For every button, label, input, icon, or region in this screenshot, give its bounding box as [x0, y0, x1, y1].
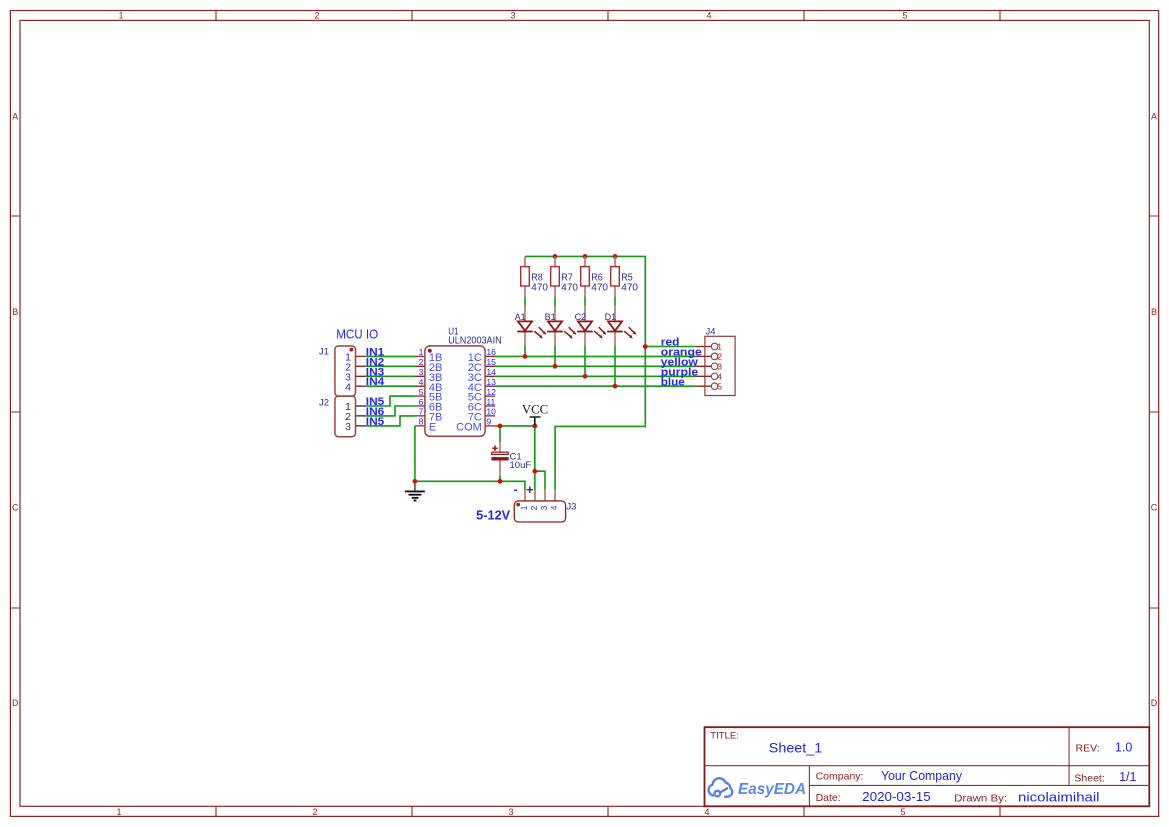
svg-text:4: 4: [345, 381, 351, 393]
title block text: [710, 731, 1136, 805]
J3 pin numbers (rotated): [519, 505, 559, 510]
svg-text:1: 1: [118, 10, 123, 20]
svg-text:2: 2: [312, 807, 317, 817]
svg-text:470: 470: [531, 283, 548, 294]
J4 pin numbers: [717, 342, 722, 392]
svg-text:3: 3: [508, 807, 513, 817]
wire junction dots: [413, 254, 648, 484]
resistor R6: [581, 267, 590, 286]
svg-text:3: 3: [539, 505, 549, 510]
svg-text:B: B: [12, 307, 18, 317]
svg-text:470: 470: [591, 283, 608, 294]
J2 pin stubs (black): [356, 406, 366, 426]
svg-text:B1: B1: [545, 312, 556, 322]
wire: capacitor C1 bottom to ground rail: [499, 476, 501, 482]
J4 pin pads: [711, 343, 718, 389]
svg-text:4: 4: [549, 505, 559, 510]
wire: J1 pin1 to IC 1B: [366, 355, 416, 357]
wire: R7 bottom to LED anode: [554, 296, 556, 306]
svg-text:10: 10: [486, 407, 496, 417]
LED A1: [517, 321, 543, 336]
svg-text:4: 4: [419, 377, 424, 387]
ground symbol: [414, 483, 416, 491]
svg-text:4: 4: [717, 372, 722, 382]
svg-text:Drawn By:: Drawn By:: [954, 793, 1007, 805]
svg-text:2: 2: [717, 352, 722, 362]
svg-text:470: 470: [561, 283, 578, 294]
svg-text:nicolaimihail: nicolaimihail: [1018, 791, 1100, 805]
connector J2 body: [335, 396, 356, 437]
wire: J1 pin3 to IC 3B: [366, 375, 416, 377]
U1 pin numbers: [419, 347, 497, 427]
svg-text:1: 1: [717, 342, 722, 352]
svg-text:IN5: IN5: [366, 416, 385, 428]
svg-text:EasyEDA: EasyEDA: [738, 781, 806, 798]
svg-text:8: 8: [419, 417, 424, 427]
svg-text:1: 1: [519, 505, 529, 510]
resistor R5: [611, 267, 620, 286]
svg-text:1: 1: [419, 347, 424, 357]
J1 / IC / J4 pin stubs: [356, 347, 712, 426]
wire: capacitor C1 top to COM row: [499, 426, 501, 442]
U1 pin names: [429, 352, 482, 434]
svg-text:14: 14: [486, 367, 496, 377]
svg-text:VCC: VCC: [522, 402, 548, 416]
svg-text:4: 4: [704, 807, 709, 817]
J1 pin numbers: [345, 352, 351, 394]
svg-text:C: C: [12, 503, 19, 513]
svg-text:J2: J2: [319, 398, 329, 409]
wire: J2 pin3 (IN5) jog to IC 7B: [366, 416, 416, 426]
resistor R7: [551, 267, 560, 286]
wire: J1 pin2 to IC 2B: [366, 365, 416, 367]
svg-text:16: 16: [486, 347, 496, 357]
svg-text:Date:: Date:: [816, 792, 841, 804]
svg-text:5-12V: 5-12V: [476, 509, 511, 523]
svg-text:J1: J1: [319, 347, 329, 358]
wire: LED cathode to output row: [584, 346, 586, 377]
wire: IC COM to VCC node: [495, 425, 535, 427]
svg-text:6: 6: [419, 397, 424, 407]
svg-text:Company:: Company:: [816, 771, 864, 783]
connector J3 body: [514, 501, 565, 522]
svg-text:10uF: 10uF: [510, 460, 532, 471]
svg-text:5: 5: [900, 807, 905, 817]
svg-text:5: 5: [419, 387, 424, 397]
svg-text:ULN2003AIN: ULN2003AIN: [448, 336, 502, 347]
svg-text:REV:: REV:: [1076, 743, 1100, 755]
svg-text:C2: C2: [575, 312, 587, 322]
wire: yellow net row (IC 2C to J4 pin3): [495, 365, 695, 367]
svg-text:E: E: [429, 422, 436, 434]
J1 pin1 marker: [350, 348, 354, 352]
J3 pin1 marker: [516, 503, 520, 507]
wire: red net row to J4 pin1: [645, 346, 695, 348]
wire: R6 bottom to LED anode: [584, 296, 586, 306]
wire: R8 bottom to LED anode: [524, 296, 526, 306]
LED D1: [607, 321, 633, 336]
svg-text:1/1: 1/1: [1119, 770, 1136, 784]
wire: blue net row (IC 4C to J4 pin5): [495, 385, 695, 387]
svg-text:D1: D1: [605, 312, 617, 322]
wire: J2 pin1 (IN5) jog to IC 5B: [366, 396, 416, 406]
svg-text:4: 4: [706, 10, 711, 20]
svg-text:Your Company: Your Company: [881, 769, 963, 783]
svg-text:11: 11: [486, 397, 495, 407]
EasyEDA logo: [709, 778, 733, 797]
svg-text:1: 1: [116, 807, 121, 817]
LED C2: [577, 321, 603, 336]
wire: LED cathode to output row: [554, 346, 556, 367]
svg-text:Sheet_1: Sheet_1: [769, 739, 823, 755]
resistor and LED pins: [500, 256, 615, 501]
svg-text:IN4: IN4: [366, 376, 385, 388]
svg-text:5: 5: [902, 10, 907, 20]
svg-text:J4: J4: [706, 327, 716, 338]
svg-text:5: 5: [717, 381, 722, 391]
VCC power symbol: [530, 417, 541, 425]
svg-text:15: 15: [486, 357, 496, 367]
wire: LED cathode to output row: [524, 346, 526, 357]
svg-text:D: D: [1151, 698, 1158, 708]
svg-text:blue: blue: [661, 376, 685, 388]
svg-text:3: 3: [345, 421, 351, 433]
svg-text:13: 13: [486, 377, 496, 387]
wire: VCC branch to J3 pin3: [535, 471, 545, 490]
svg-text:7: 7: [419, 407, 424, 417]
svg-text:12: 12: [486, 387, 496, 397]
svg-text:1.0: 1.0: [1115, 741, 1132, 755]
svg-text:MCU IO: MCU IO: [336, 327, 378, 342]
svg-text:470: 470: [621, 283, 638, 294]
svg-text:TITLE:: TITLE:: [710, 731, 739, 742]
wire: LED cathode to output row: [614, 346, 616, 386]
svg-text:+: +: [526, 482, 534, 497]
connector J1 body: [335, 346, 356, 396]
svg-text:2020-03-15: 2020-03-15: [862, 790, 931, 804]
J2 pin numbers: [345, 401, 351, 433]
svg-text:A: A: [12, 112, 18, 122]
svg-text:2: 2: [314, 10, 319, 20]
op IC U1 body: [425, 346, 485, 436]
svg-text:3: 3: [510, 10, 515, 20]
svg-text:3: 3: [717, 362, 722, 372]
connector J4 body: [705, 336, 735, 395]
wire: J1 pin4 to IC 4B: [366, 385, 416, 387]
svg-text:D: D: [12, 698, 19, 708]
svg-text:-: -: [514, 483, 518, 497]
svg-text:9: 9: [486, 417, 491, 427]
title block dividers: [705, 727, 1150, 806]
svg-text:A: A: [1151, 112, 1157, 122]
wire: R5 bottom to LED anode: [614, 296, 616, 306]
svg-text:B: B: [1151, 307, 1157, 317]
svg-text:A1: A1: [515, 312, 526, 322]
svg-text:Sheet:: Sheet:: [1074, 772, 1104, 784]
wire: purple net row (IC 3C to J4 pin4): [495, 375, 695, 377]
LED B1: [547, 321, 573, 336]
svg-text:3: 3: [419, 367, 424, 377]
wire: IC pin E to ground rail: [415, 426, 525, 490]
wire: orange net row (IC 1C to J4 pin2): [495, 355, 695, 357]
title block box: [705, 727, 1150, 806]
svg-text:C: C: [1151, 503, 1158, 513]
svg-text:COM: COM: [456, 422, 482, 434]
wire: VCC anode rail (resistor tops to J3 pin4): [525, 256, 645, 490]
U1 pin1 marker: [428, 349, 432, 353]
resistor R8: [521, 267, 530, 286]
svg-text:J3: J3: [566, 502, 576, 513]
capacitor C1: [492, 446, 497, 451]
wire: J2 pin2 (IN6) jog to IC 6B: [366, 406, 416, 416]
svg-text:2: 2: [529, 505, 539, 510]
wire: VCC node down to J3 pin2: [534, 426, 536, 490]
svg-text:2: 2: [419, 357, 424, 367]
